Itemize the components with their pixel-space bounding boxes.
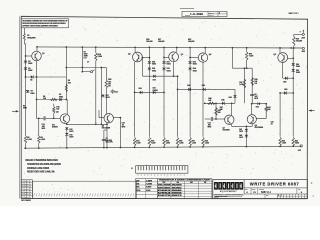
svg-text:DRIVE: DRIVE (153, 90, 159, 92)
svg-text:PRINTED CIRCUIT REV.: PRINTED CIRCUIT REV. (214, 195, 228, 197)
svg-text:D662: D662 (152, 64, 156, 66)
svg-text:1W: 1W (254, 83, 257, 85)
svg-text:C31: C31 (115, 92, 118, 94)
svg-text:TRANSISTORS ARE 2N4258 AND DEC: TRANSISTORS ARE 2N4258 AND DEC6534 (27, 163, 61, 166)
svg-text:UNLESS OTHERWISE INDICATED:: UNLESS OTHERWISE INDICATED: (25, 159, 58, 162)
svg-text:D30098: D30098 (52, 127, 58, 129)
svg-text:D42: D42 (187, 84, 190, 87)
svg-text:DEC3009B: DEC3009B (102, 127, 111, 129)
svg-text:D38: D38 (153, 79, 156, 81)
svg-text:IN675: IN675 (172, 195, 182, 197)
svg-text:J1: J1 (131, 168, 133, 170)
svg-text:D675: D675 (239, 131, 243, 133)
svg-text:1,500: 1,500 (205, 143, 209, 145)
svg-text:D662: D662 (152, 70, 156, 72)
svg-text:6,800: 6,800 (295, 143, 299, 145)
svg-text:T.JONES: T.JONES (146, 184, 152, 186)
svg-text:ECO 0 1: ECO 0 1 (209, 15, 214, 17)
svg-text:Q6: Q6 (102, 125, 104, 127)
svg-text:B: B (278, 195, 279, 197)
svg-text:D675: D675 (239, 137, 243, 139)
svg-text:100,000: 100,000 (296, 41, 302, 43)
svg-text:DEC: DEC (163, 182, 166, 184)
svg-text:100,000: 100,000 (188, 41, 194, 43)
svg-text:.01: .01 (122, 125, 124, 127)
svg-text:Q3: Q3 (181, 54, 184, 56)
svg-text:150: 150 (43, 98, 46, 100)
svg-text:D51: D51 (256, 107, 259, 109)
svg-text:DEC3009B: DEC3009B (255, 127, 264, 129)
svg-text:D662: D662 (28, 63, 32, 65)
svg-text:Q7: Q7 (223, 127, 225, 129)
svg-text:35V, 10%: 35V, 10% (106, 142, 114, 144)
svg-text:100,000: 100,000 (146, 41, 152, 43)
svg-text:IN645: IN645 (172, 189, 182, 192)
svg-text:DEC: DEC (190, 182, 193, 184)
svg-text:3,300: 3,300 (239, 84, 243, 86)
svg-text:DIODES ARE D664: DIODES ARE D664 (27, 167, 50, 170)
svg-text:WRITE DRIVER 6087: WRITE DRIVER 6087 (250, 181, 300, 186)
svg-text:C17: C17 (84, 58, 87, 60)
svg-text:C30: C30 (122, 123, 125, 125)
svg-text:D662: D662 (193, 70, 197, 72)
svg-text:C10: C10 (42, 124, 45, 126)
svg-text:REV 1 2: REV 1 2 (209, 13, 214, 15)
svg-text:D662: D662 (193, 64, 197, 66)
svg-text:ECO NO.: ECO NO. (214, 197, 219, 199)
svg-text:7,500: 7,500 (98, 56, 102, 58)
svg-text:1,500: 1,500 (166, 143, 170, 145)
svg-text:D675: D675 (158, 195, 171, 197)
svg-text:Q1: Q1 (42, 53, 45, 55)
svg-text:D662: D662 (167, 70, 171, 72)
svg-text:ECO: ECO (266, 195, 269, 197)
svg-text:D4: D4 (30, 79, 32, 82)
svg-text:540: 540 (56, 108, 59, 111)
svg-text:100,000: 100,000 (158, 41, 164, 43)
svg-text:PROD: PROD (136, 190, 140, 192)
svg-text:7,500: 7,500 (249, 56, 253, 58)
svg-text:1,500: 1,500 (41, 139, 45, 141)
svg-text:CODE: CODE (252, 189, 256, 191)
svg-text:1,500: 1,500 (27, 139, 31, 141)
svg-text:C33: C33 (208, 122, 211, 124)
svg-text:D662: D662 (28, 70, 32, 72)
svg-text:1,500: 1,500 (192, 143, 196, 145)
svg-text:Q8: Q8 (255, 125, 257, 127)
svg-text:D40: D40 (139, 87, 142, 90)
svg-text:D50: D50 (283, 81, 286, 83)
svg-text:D49: D49 (284, 88, 287, 91)
svg-text:Q5: Q5 (273, 54, 276, 56)
svg-text:D662: D662 (296, 72, 300, 74)
svg-text:D675: D675 (69, 131, 73, 133)
svg-text:R.BEST: R.BEST (146, 187, 151, 189)
svg-text:.01: .01 (271, 123, 273, 125)
svg-text:GRN,BRN: GRN,BRN (27, 37, 36, 39)
svg-text:D675: D675 (106, 97, 110, 99)
svg-text:EQUIPMENT: EQUIPMENT (220, 191, 237, 193)
svg-text:C1: C1 (106, 138, 108, 140)
svg-text:D675: D675 (69, 137, 73, 139)
svg-text:1,500: 1,500 (282, 143, 286, 145)
svg-text:RESISTORS ARE 1/4W; 5%: RESISTORS ARE 1/4W; 5% (27, 171, 55, 174)
svg-text:1,500: 1,500 (136, 143, 140, 145)
svg-text:1-D-6809: 1-D-6809 (190, 13, 203, 16)
svg-text:COPYRIGHT: COPYRIGHT (22, 25, 29, 27)
svg-text:.001: .001 (42, 126, 45, 128)
svg-text:D662: D662 (31, 93, 35, 95)
svg-text:540: 540 (208, 99, 211, 102)
svg-text:SHEET 1 OF 1: SHEET 1 OF 1 (289, 13, 299, 15)
svg-text:DEC8881: DEC8881 (223, 129, 230, 131)
svg-text:.001: .001 (208, 124, 211, 126)
svg-text:Q9: Q9 (56, 111, 59, 113)
svg-text:DRN: DRN (136, 180, 139, 182)
svg-text:ENG: ENG (136, 187, 139, 189)
svg-text:7,500: 7,500 (179, 143, 183, 145)
svg-text:DEC FORM NO: DEC FORM NO (21, 200, 31, 202)
svg-text:D46: D46 (229, 96, 232, 99)
svg-text:6087-0-1: 6087-0-1 (261, 191, 272, 194)
svg-text:D662: D662 (59, 96, 63, 98)
svg-text:D43: D43 (202, 84, 205, 87)
svg-text:560: 560 (68, 82, 71, 84)
svg-text:7,500: 7,500 (151, 143, 155, 145)
svg-text:D664: D664 (158, 192, 171, 195)
svg-text:Q2: Q2 (128, 54, 131, 56)
svg-text:D45: D45 (221, 99, 224, 102)
svg-text:SIZE: SIZE (245, 189, 248, 191)
svg-text:D662: D662 (167, 64, 171, 66)
svg-text:CHK: CHK (136, 184, 139, 186)
svg-text:D662: D662 (296, 66, 300, 68)
svg-text:D11: D11 (52, 125, 55, 127)
svg-text:6.8 MFD: 6.8 MFD (106, 140, 113, 142)
svg-text:540: 540 (218, 111, 221, 114)
svg-text:H.LEE: H.LEE (146, 190, 150, 192)
svg-text:C7: C7 (87, 62, 89, 64)
